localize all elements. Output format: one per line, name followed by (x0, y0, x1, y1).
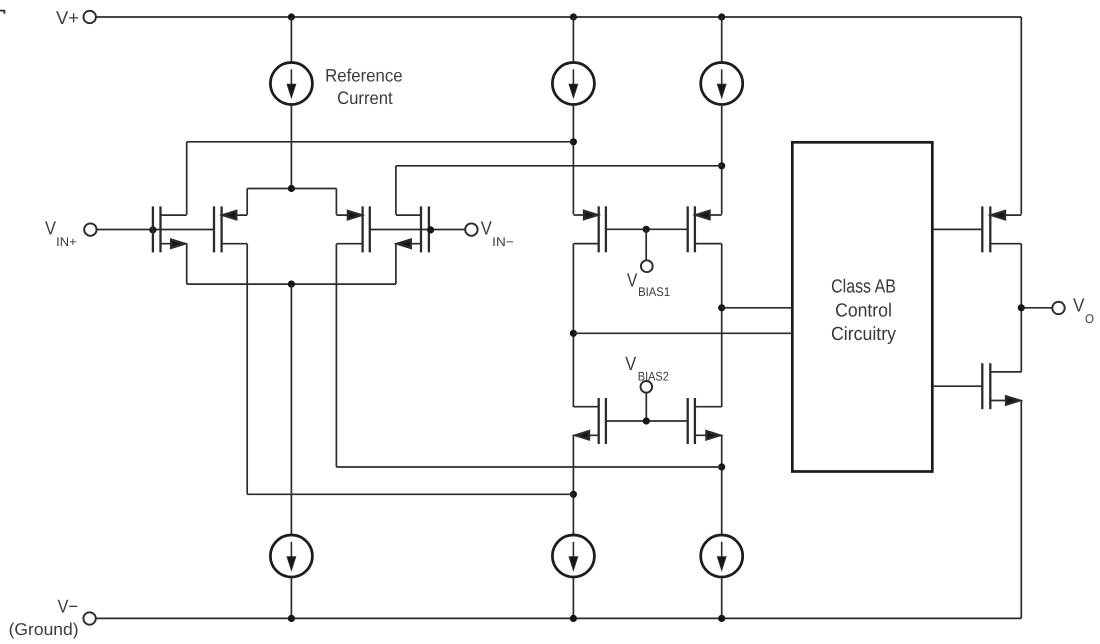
wire: V+ rail (top supply rail) (96, 16, 1021, 18)
wire: Class AB box to gate of M9 (932, 228, 982, 230)
wire: output node to V_O terminal (1021, 307, 1052, 309)
transistor M9 (PMOS output) (982, 206, 1021, 252)
wire: V+ rail right leg down to M9 source (1020, 17, 1022, 214)
wire: M6 drain chain down to M8 (right cascode column) (721, 244, 723, 407)
terminal V_BIAS1 (641, 260, 653, 272)
junction: NMOS pair tail node (288, 281, 295, 288)
transistor M3 (PMOS input, V_IN- side) (336, 206, 369, 252)
junction on V- rail at I5 (570, 615, 577, 622)
junction: left column tap to Class AB box (570, 330, 577, 337)
wire: V+ rail down to current source I3 (721, 17, 723, 63)
svg-text:Reference: Reference (325, 65, 403, 85)
wire: M4 source down to NMOS tail node (395, 244, 397, 284)
current source I-REF (reference current) (270, 63, 312, 105)
junction: PMOS pair tail node (288, 185, 295, 192)
block: Class AB Control Circuitry (792, 142, 932, 471)
svg-text:V: V (45, 219, 56, 240)
wire: V- rail (bottom supply rail) (96, 617, 1021, 619)
transistor M10 (NMOS output) (982, 363, 1021, 409)
terminal V_IN- (465, 223, 477, 235)
wire: M2 drain down to left summing wire (246, 244, 248, 495)
junction: output node (1018, 304, 1025, 311)
wire: V_BIAS2 terminal down to gate bus (645, 393, 647, 421)
wire: I6 to V- rail (721, 577, 723, 618)
wire: left column tap into Class AB box (lower) (573, 332, 792, 334)
junction: right column tap to Class AB box (718, 304, 725, 311)
terminal V_O (1052, 302, 1064, 314)
wire: M8 source down to current source I6 (721, 435, 723, 535)
svg-text:IN+: IN+ (56, 235, 76, 249)
junction: left summing node (M2 drain feed) (570, 491, 577, 498)
transistor M2 (PMOS input, V_IN+ side) (214, 206, 247, 252)
wire: Class AB box to gate of M10 (932, 385, 982, 387)
svg-text:Class AB: Class AB (831, 277, 896, 298)
wire: M5 drain chain down to M7 (left cascode column) (572, 244, 574, 407)
stray mark (cropped glyph) at top-left edge (0, 11, 4, 14)
junction on V+ rail at second current-source branch (570, 13, 577, 20)
svg-text:V−: V− (58, 596, 79, 617)
wire: NMOS-pair left drain up to node A (186, 142, 188, 215)
wire: V_BIAS1 gate stub down to terminal (645, 229, 647, 260)
wire: M10 source down to V- rail (1020, 400, 1022, 618)
wire: M9 drain down to output node and M10 drain (1020, 244, 1022, 372)
junction on V- rail at I6 (718, 615, 725, 622)
transistor M8 (NMOS cascode, V_BIAS2 right) (688, 398, 722, 444)
svg-text:(Ground): (Ground) (9, 620, 79, 639)
wire: M1 source down to NMOS tail node (186, 244, 188, 284)
wire: V_IN+ input to gates of M1/M2 (97, 229, 214, 231)
svg-text:Control: Control (835, 301, 892, 322)
wire: I5 to V- rail (572, 577, 574, 618)
wire: PMOS pair left source riser (246, 189, 248, 215)
svg-text:BIAS1: BIAS1 (638, 285, 670, 299)
junction: V_IN- gate tie at M4 (427, 226, 434, 233)
wire: I3 down through node B to PMOS cascode source (721, 105, 723, 215)
svg-text:Current: Current (337, 88, 393, 108)
transistor M1 (NMOS input, V_IN+ side) (153, 206, 187, 252)
current source I5 (folded-cascode bottom, left) (552, 535, 594, 577)
transistor M6 (PMOS cascode, V_BIAS1 right) (688, 206, 722, 252)
junction node B (I3 / NMOS-pair right drain) (718, 162, 725, 169)
wire: right column tap into Class AB box (upper) (722, 307, 793, 309)
terminal V_IN+ (84, 223, 96, 235)
wire: V_BIAS1 gate bus (606, 228, 688, 230)
terminal V+ (84, 11, 96, 23)
wire: V_BIAS2 gate bus (606, 420, 688, 422)
transistor M5 (PMOS cascode, V_BIAS1 left) (573, 206, 606, 252)
transistor M4 (NMOS input, V_IN- side) (396, 206, 429, 252)
wire: NMOS-pair right drain up to node B (395, 166, 397, 215)
svg-text:V+: V+ (56, 7, 79, 28)
terminal V- (ground) (83, 612, 95, 624)
junction: right summing node (M3 drain feed) (718, 463, 725, 470)
junction: V_IN+ gate tie at M1 (149, 226, 156, 233)
junction on V+ rail at third current-source branch (718, 13, 725, 20)
svg-text:O: O (1085, 312, 1094, 326)
wire: I4 to V- rail (290, 577, 292, 618)
wire: NMOS differential pair common-source rail (187, 283, 396, 285)
wire: right summing wire from M3 drain (336, 466, 721, 468)
junction node A (I2 / NMOS-pair left drain) (570, 138, 577, 145)
wire: M7 source down to current source I5 (572, 435, 574, 535)
wire: PMOS pair right source riser (335, 189, 337, 215)
terminal V_BIAS2 (641, 381, 653, 393)
wire: PMOS differential pair common-source node (247, 188, 336, 190)
wire: reference current source to PMOS pair common-source node (290, 105, 292, 189)
svg-text:V: V (481, 219, 492, 240)
junction: V_BIAS1 gate tie (643, 226, 650, 233)
svg-text:IN−: IN− (492, 235, 514, 249)
transistor M7 (NMOS cascode, V_BIAS2 left) (573, 398, 606, 444)
svg-text:V: V (1073, 296, 1085, 317)
wire: I2 down through node A to PMOS cascode source (572, 105, 574, 215)
wire: M3 drain down to right summing wire (335, 244, 337, 467)
wire: gates of M3/M4 to V_IN- terminal (370, 229, 465, 231)
wire: V+ rail down to current source I2 (572, 17, 574, 63)
current source I3 (folded-cascode top, right) (701, 63, 743, 105)
junction: V_BIAS2 gate tie (643, 417, 650, 424)
current source I6 (folded-cascode bottom, right) (701, 535, 743, 577)
wire: left summing wire from M2 drain (247, 493, 573, 495)
wire: V+ rail down to reference current source (290, 17, 292, 63)
svg-text:V: V (627, 270, 638, 291)
current source I4 (NMOS pair tail) (270, 535, 312, 577)
wire: NMOS tail node down to current source I4 (290, 284, 292, 535)
svg-text:Circuitry: Circuitry (831, 324, 896, 345)
junction on V- rail at I4 (288, 615, 295, 622)
current source I2 (folded-cascode top, left) (552, 63, 594, 105)
svg-text:V: V (625, 354, 636, 375)
junction on V+ rail at reference-current branch (288, 13, 295, 20)
